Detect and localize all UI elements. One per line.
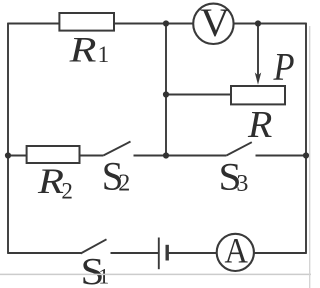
svg-text:A: A — [225, 231, 248, 271]
resistor R2 box — [27, 146, 80, 163]
wire: middle row S3 to right wire — [256, 155, 307, 157]
svg-text:3: 3 — [236, 171, 248, 197]
wire: left vertical wire — [7, 23, 9, 254]
switch S1 blade — [81, 239, 107, 253]
node junction dot top-center — [163, 20, 169, 26]
battery cell: long positive plate — [158, 238, 160, 270]
svg-text:R: R — [37, 161, 64, 201]
node junction dot middle-center — [163, 152, 169, 158]
switch S3 blade — [226, 142, 251, 155]
wire: potentiometer slider stem from top wire — [257, 24, 259, 80]
svg-text:2: 2 — [61, 178, 73, 203]
svg-text:R: R — [68, 30, 96, 70]
voltmeter V circle — [193, 4, 233, 44]
node junction dot middle-right — [303, 152, 309, 158]
switch S2 blade — [103, 142, 130, 156]
battery cell: short negative plate — [165, 245, 168, 261]
wire: right vertical wire — [305, 23, 307, 254]
wire: middle row left segment through R2 to S2 — [8, 155, 103, 157]
wire: center vertical node line — [165, 24, 167, 156]
wire: top wire — [8, 23, 306, 25]
svg-text:2: 2 — [118, 171, 130, 197]
scan artifact: faint bottom line — [0, 273, 311, 275]
svg-text:1: 1 — [98, 263, 109, 288]
node junction dot middle-left — [5, 152, 11, 158]
wire: branch to rheostat R left end — [166, 94, 231, 96]
wire: middle row S2 to S3 — [134, 155, 227, 157]
svg-text:P: P — [273, 46, 295, 89]
potentiometer slider arrowhead P — [255, 73, 261, 85]
node junction dot top-right (slider tap) — [255, 20, 261, 26]
wire: bottom wire S1 to battery — [111, 252, 159, 254]
scan artifact: faint right edge line — [309, 26, 311, 288]
svg-text:R: R — [247, 104, 272, 146]
ammeter A circle — [217, 234, 254, 271]
svg-text:V: V — [200, 0, 230, 45]
svg-text:1: 1 — [98, 42, 110, 67]
resistor R1 box — [59, 13, 114, 31]
wire: bottom wire battery to ammeter and right corner — [168, 252, 306, 254]
node junction dot at rheostat branch — [163, 91, 169, 97]
resistor R box (rheostat) — [231, 86, 285, 104]
wire: bottom wire left segment to S1 — [8, 252, 81, 254]
